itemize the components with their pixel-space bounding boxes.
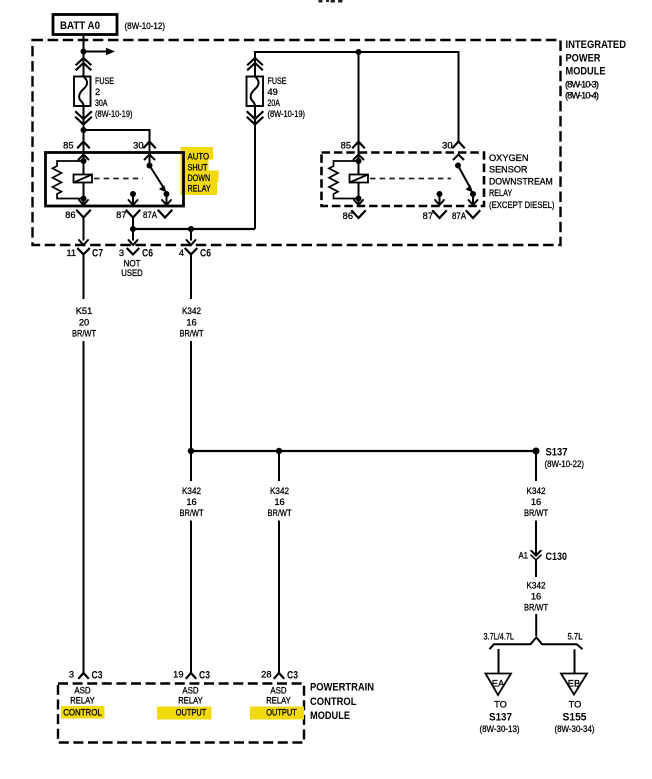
svg-text:RELAY: RELAY [188, 184, 211, 194]
wire pin 86 down to C7 [83, 218, 85, 241]
fuse F2 [74, 77, 91, 107]
pin 85 terminal chevron [78, 142, 89, 148]
splice S137 node [533, 448, 540, 455]
connector C130 pin A1 [519, 550, 568, 563]
node pin87/fuse49 bus [130, 226, 136, 232]
wire K342 down through splice bus [190, 341, 192, 481]
connector C7 pin 11 [66, 248, 103, 260]
svg-text:C130: C130 [546, 551, 568, 563]
svg-text:AUTO: AUTO [188, 152, 210, 162]
pin 87 label / terminal chevron [116, 210, 139, 220]
coil-contact linkage (dashed) [94, 178, 143, 180]
svg-text:86: 86 [65, 210, 75, 220]
svg-text:ASD: ASD [270, 686, 287, 696]
svg-text:OXYGEN: OXYGEN [489, 153, 529, 163]
relay coil (oxygen) [350, 161, 369, 199]
wire label K342 16 BR/WT (col 2 lower) [180, 486, 204, 518]
svg-text:OUTPUT: OUTPUT [266, 708, 297, 718]
splice S137 label [545, 447, 585, 470]
arrow into C130 [532, 551, 541, 556]
wire down to engine split [535, 614, 537, 636]
engine variant brace [490, 637, 583, 649]
inline connector chevrons below fuse 49 [248, 112, 263, 125]
svg-text:RELAY: RELAY [70, 696, 95, 706]
svg-text:BR/WT: BR/WT [524, 603, 548, 613]
node coil bottom [81, 196, 87, 202]
wire label K342 16 BR/WT (upper) [180, 306, 204, 339]
pin 30 entry arrow [454, 155, 464, 160]
pin 87A label / chevron (oxygen bottom) [452, 211, 480, 221]
pin 87 exit arrow [129, 194, 138, 205]
svg-text:CONTROL: CONTROL [63, 708, 102, 718]
cropped page-title remnant at top edge [319, 0, 343, 3]
wire pin 87 down [132, 218, 134, 241]
pin 86 label / chevron (oxygen bottom) [343, 211, 365, 221]
svg-text:16: 16 [274, 497, 284, 507]
PCM pin 28 terminal [261, 670, 298, 682]
node pin 87A (oxygen) [470, 191, 476, 197]
off-page connector EB [561, 674, 587, 695]
inline connector chevrons above fuse 2 [77, 58, 91, 70]
fuse F49 [247, 77, 264, 107]
wire down to oxygen relay pin 85 [358, 52, 360, 161]
svg-text:(EXCEPT DIESEL): (EXCEPT DIESEL) [489, 200, 555, 210]
svg-text:RELAY: RELAY [178, 696, 203, 706]
resistor (coil suppression) [53, 161, 84, 199]
pin 30 terminal chevron [453, 142, 464, 148]
svg-text:DOWN: DOWN [188, 173, 211, 183]
wire to off-page EB [574, 649, 576, 673]
pin 87A exit arrow [469, 194, 478, 205]
coil-contact linkage (dashed, oxygen) [370, 178, 451, 180]
node junction at battery feed [81, 49, 87, 55]
svg-text:BR/WT: BR/WT [180, 329, 204, 339]
inline connector chevrons above fuse 49 [248, 58, 262, 70]
svg-text:(8W-10-19): (8W-10-19) [268, 109, 306, 119]
svg-text:85: 85 [63, 141, 73, 151]
wire fuse 2 to ASD relay pin 85 [83, 106, 85, 161]
PCM title [310, 682, 374, 722]
svg-text:5.7L: 5.7L [568, 632, 583, 642]
battery feed box BATT A0 [53, 15, 117, 35]
Integrated Power Module title [565, 39, 626, 101]
svg-text:USED: USED [121, 268, 143, 278]
ASD RELAY OUTPUT pin function col3 (highlighted) [250, 686, 304, 720]
svg-text:87: 87 [116, 210, 126, 220]
fuse 2 value labels [95, 76, 133, 119]
svg-text:BR/WT: BR/WT [268, 508, 292, 518]
svg-text:20: 20 [79, 318, 89, 328]
svg-text:S137: S137 [546, 447, 568, 459]
svg-text:K342: K342 [527, 486, 546, 496]
svg-text:BR/WT: BR/WT [180, 508, 204, 518]
svg-text:S137: S137 [489, 712, 512, 724]
svg-text:BR/WT: BR/WT [524, 508, 548, 518]
svg-text:SHUT: SHUT [188, 163, 208, 173]
resistor (oxygen relay) [329, 161, 359, 199]
bus wire from pin 87 to fuse 49 output [133, 228, 255, 230]
svg-text:A1: A1 [519, 551, 529, 561]
wire label K342 16 BR/WT (below C130) [524, 581, 548, 613]
svg-text:87: 87 [423, 211, 433, 221]
svg-text:(8W-30-13): (8W-30-13) [480, 724, 520, 734]
svg-text:TO: TO [494, 700, 507, 710]
pin 30 terminal chevron [144, 142, 155, 148]
pin 85 entry arrow [354, 155, 364, 160]
node pin 87 (oxygen) [437, 191, 443, 197]
node pin 87 [130, 191, 136, 197]
svg-text:INTEGRATED: INTEGRATED [566, 39, 627, 51]
top feed bus for oxygen sensor relay [255, 52, 459, 142]
EB destination label TO S155 [555, 700, 595, 735]
relay K1 AUTO SHUT DOWN RELAY box [46, 153, 184, 207]
svg-text:FUSE: FUSE [268, 76, 287, 86]
connector C6 pin 4 [179, 248, 211, 260]
svg-text:POWER: POWER [566, 52, 601, 64]
svg-text:K51: K51 [76, 306, 93, 316]
wire drop to C6 pin 4 [190, 229, 192, 241]
svg-text:C3: C3 [287, 670, 298, 682]
pin 30 entry arrow [145, 155, 155, 160]
arrow into IPM boundary at C6 pin 3 [129, 240, 138, 245]
node at fuse 2 output [81, 127, 87, 133]
svg-text:EA: EA [492, 679, 505, 689]
svg-text:(8W-10-12): (8W-10-12) [125, 21, 166, 31]
switch arm pin 30 to 87A (oxygen) [455, 163, 473, 193]
node on bus at K342 column [188, 448, 194, 454]
svg-text:TO: TO [569, 700, 582, 710]
splice bus to S137 [191, 450, 536, 452]
arrow into IPM boundary at C6 pin 4 [187, 240, 196, 245]
svg-text:NOT: NOT [124, 259, 141, 269]
svg-text:RELAY: RELAY [489, 188, 512, 198]
wire label K342 16 BR/WT (col 3) [268, 486, 292, 518]
pin 86 label / terminal chevron (ASD bottom) [65, 210, 90, 220]
AUTO SHUT DOWN RELAY highlighted name [188, 152, 211, 194]
svg-text:MODULE: MODULE [566, 66, 606, 78]
svg-text:16: 16 [531, 497, 541, 507]
svg-text:C6: C6 [200, 248, 211, 260]
svg-text:POWERTRAIN: POWERTRAIN [310, 682, 374, 694]
wire C130 down [535, 560, 537, 577]
svg-text:(8W-10-3): (8W-10-3) [565, 80, 599, 90]
wire C7 pin 11 down (upper) [83, 254, 85, 299]
svg-text:DOWNSTREAM: DOWNSTREAM [489, 176, 553, 186]
pin 85 terminal chevron [353, 142, 364, 148]
node on bus at second output column [276, 448, 282, 454]
svg-text:BATT A0: BATT A0 [60, 20, 100, 32]
ASD RELAY OUTPUT pin function col2 (highlighted) [157, 686, 212, 720]
svg-text:30: 30 [442, 141, 452, 151]
wire col2 to PCM pin 19 [190, 521, 192, 673]
svg-text:11: 11 [66, 248, 76, 258]
pin 87A label / terminal chevron [143, 210, 172, 220]
svg-text:ASD: ASD [74, 686, 91, 696]
wire C6 pin 4 down (upper) [190, 254, 192, 299]
ASD RELAY CONTROL pin function (highlighted) [61, 686, 105, 719]
svg-text:K342: K342 [270, 486, 289, 496]
Powertrain Control Module dashed boundary [58, 684, 304, 743]
PCM pin 19 terminal [173, 670, 210, 682]
node coil top [81, 158, 87, 164]
PCM pin 3 terminal [69, 670, 103, 682]
svg-text:K342: K342 [182, 486, 201, 496]
wire label K342 16 BR/WT (S137 branch) [524, 486, 548, 518]
relay coil [74, 161, 93, 199]
connector C6 pin 3 NOT USED [119, 248, 153, 279]
svg-text:C3: C3 [199, 670, 210, 682]
svg-text:BR/WT: BR/WT [72, 329, 96, 339]
node coil bottom (oxygen) [356, 196, 362, 202]
svg-text:FUSE: FUSE [95, 76, 114, 86]
svg-text:K342: K342 [527, 581, 546, 591]
svg-text:16: 16 [186, 318, 196, 328]
svg-text:S155: S155 [563, 712, 587, 724]
svg-text:3.7L/4.7L: 3.7L/4.7L [484, 632, 515, 642]
svg-text:86: 86 [343, 211, 353, 221]
wire into C130 [535, 521, 537, 556]
svg-text:C7: C7 [92, 248, 103, 260]
svg-text:(8W-10-4): (8W-10-4) [565, 91, 599, 101]
svg-text:19: 19 [173, 670, 183, 680]
wire from BATT A0 down to fuse 2 [83, 35, 85, 77]
wire branch from fuse 2 output to ASD pin 30 [84, 130, 150, 165]
svg-text:OUTPUT: OUTPUT [176, 708, 207, 718]
svg-text:CONTROL: CONTROL [310, 696, 357, 708]
svg-text:4: 4 [179, 248, 184, 258]
svg-text:EB: EB [568, 679, 580, 689]
svg-text:(8W-10-22): (8W-10-22) [545, 459, 585, 469]
switch arm pin 30 to 87A [147, 163, 167, 193]
svg-text:30A: 30A [95, 98, 108, 108]
node oxygen relay coil feed [356, 49, 362, 55]
svg-text:(8W-30-34): (8W-30-34) [555, 724, 595, 734]
relay OXYGEN SENSOR DOWNSTREAM RELAY dashed box [322, 153, 485, 207]
svg-text:(8W-10-19): (8W-10-19) [95, 109, 133, 119]
wire label K51 20 BR/WT [72, 306, 96, 339]
off-page connector EA [486, 674, 512, 696]
svg-text:C6: C6 [142, 248, 153, 260]
svg-text:16: 16 [531, 592, 541, 602]
wire col3 from bus [278, 451, 280, 481]
pin 87A exit arrow [162, 194, 171, 205]
svg-text:SENSOR: SENSOR [489, 165, 528, 175]
wire col3 to PCM pin 28 [278, 521, 280, 673]
svg-text:ASD: ASD [182, 686, 199, 696]
node coil top (oxygen) [356, 158, 362, 164]
Integrated Power Module dashed boundary [33, 40, 561, 245]
pin 85 entry arrow [79, 155, 89, 160]
inline connector chevrons below fuse 2 [76, 112, 91, 125]
svg-text:MODULE: MODULE [310, 710, 350, 722]
svg-text:3: 3 [119, 248, 124, 258]
pin 86 exit arrow (oxygen) [354, 199, 363, 206]
svg-text:87A: 87A [452, 211, 467, 221]
wire S137 down to C130 [535, 451, 537, 481]
svg-text:C3: C3 [92, 670, 103, 682]
pin 86 exit arrow [79, 199, 88, 206]
svg-text:28: 28 [261, 670, 271, 680]
node C6 pin 4 drop [188, 226, 194, 232]
pin 87 exit arrow [435, 194, 444, 205]
svg-text:RELAY: RELAY [266, 696, 291, 706]
svg-text:20A: 20A [268, 98, 281, 108]
wire K51 down to PCM pin 3 [83, 341, 85, 673]
svg-text:16: 16 [186, 497, 196, 507]
svg-text:49: 49 [268, 87, 278, 97]
EA destination label TO S137 [480, 700, 520, 735]
pin 87 label / chevron (oxygen bottom) [423, 211, 446, 221]
wire to off-page EA [498, 649, 500, 674]
fuse 49 value labels [268, 76, 306, 119]
wire fuse 49 down to bus [254, 106, 256, 229]
svg-text:85: 85 [341, 141, 351, 151]
node pin 87A [164, 191, 170, 197]
arrow into IPM boundary at C7 [79, 240, 88, 245]
svg-text:2: 2 [95, 87, 100, 97]
svg-text:3: 3 [69, 670, 74, 680]
continuation arrow to the right [84, 48, 116, 56]
svg-text:30: 30 [133, 141, 143, 151]
highlight behind AUTO SHUT DOWN RELAY name [181, 147, 219, 195]
OXYGEN SENSOR DOWNSTREAM RELAY name [489, 153, 555, 210]
svg-text:K342: K342 [182, 306, 201, 316]
svg-text:87A: 87A [143, 210, 158, 220]
